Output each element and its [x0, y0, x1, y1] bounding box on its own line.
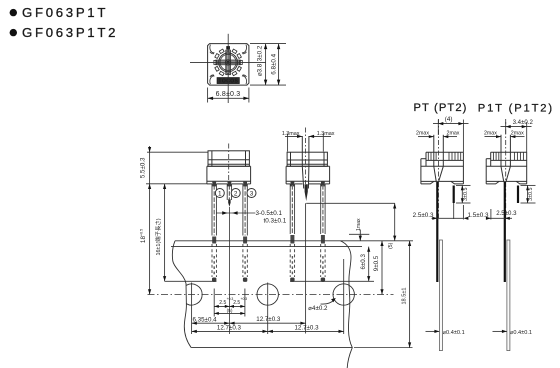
dimension 6.8±0.3 (top view width) — [208, 88, 249, 103]
reference line from lead tip — [306, 203, 395, 333]
svg-text:⌀0.4±0.1: ⌀0.4±0.1 — [510, 330, 532, 336]
dim (5) — [214, 308, 245, 315]
svg-text:2.5±0.3: 2.5±0.3 — [496, 210, 517, 217]
P1T center line — [505, 119, 507, 219]
svg-text:1.5±0.3: 1.5±0.3 — [468, 212, 489, 219]
P1T shaft — [501, 135, 510, 182]
svg-text:3.4±0.2: 3.4±0.2 — [513, 119, 534, 126]
svg-text:3: 3 — [250, 190, 254, 197]
svg-text:2.5: 2.5 — [219, 300, 226, 306]
leg root shadows — [212, 182, 324, 187]
svg-text:1: 1 — [218, 190, 222, 197]
PT dimension 1.5±0.3 — [454, 203, 489, 220]
dimension 12.7±0.3 row2 right — [268, 325, 344, 333]
PT front lead — [436, 182, 438, 282]
svg-text:6.8±0.3: 6.8±0.3 — [216, 91, 241, 98]
P1T back lead — [517, 186, 519, 204]
svg-text:1.3max: 1.3max — [317, 131, 335, 137]
dimension (5) vertical — [388, 203, 397, 249]
tape top edge — [175, 240, 371, 242]
svg-text:3±0.2: 3±0.2 — [257, 45, 264, 61]
svg-text:3±0.5: 3±0.5 — [463, 187, 469, 200]
rotor tick marks — [214, 46, 242, 76]
svg-text:GF063P1T: GF063P1T — [22, 5, 108, 20]
dimension 18.5±1 — [401, 241, 411, 348]
svg-text:1max: 1max — [356, 218, 362, 231]
top view body outline — [208, 44, 249, 86]
P1T dimension 3.4±0.2 — [501, 119, 534, 152]
hole center line — [148, 294, 394, 296]
component 2 leg left (long) — [290, 184, 294, 282]
svg-text:9±0.5: 9±0.5 — [373, 255, 380, 271]
dimension 3±0.2 / ⌀3.8 (top view inner height) — [250, 44, 286, 86]
hole center ticks — [192, 259, 344, 307]
PT dimension 2.5±0.3 — [413, 212, 464, 220]
bottom reference extension — [354, 347, 413, 349]
component 1 leg 3 (long) — [243, 184, 247, 282]
svg-text:2max: 2max — [484, 130, 497, 136]
svg-text:3±0.5: 3±0.5 — [528, 187, 534, 200]
dimension 16±1 (terminal length) — [154, 184, 216, 281]
sprocket hole left (torn) — [186, 284, 202, 305]
part number list — [10, 5, 119, 40]
svg-text:2: 2 — [234, 190, 238, 197]
svg-text:(5): (5) — [227, 308, 233, 314]
svg-text:⌀0.4±0.1: ⌀0.4±0.1 — [443, 330, 465, 336]
component 1 leg 2 (short center) — [227, 184, 231, 334]
P1T main body — [486, 152, 527, 184]
svg-text:12.7±0.3: 12.7±0.3 — [217, 325, 242, 332]
svg-text:18.5±1: 18.5±1 — [401, 287, 407, 304]
PT dimension (4) — [433, 116, 469, 152]
svg-text:6±0.3: 6±0.3 — [360, 254, 367, 270]
bottom dim extension lines — [192, 307, 344, 335]
svg-text:+0.3: +0.3 — [241, 297, 248, 301]
top view center lines — [190, 34, 266, 103]
svg-text:2max: 2max — [511, 130, 524, 136]
sprocket hole center — [257, 284, 278, 305]
tape adhesive edge — [171, 246, 362, 248]
leg pitch dims 2.5 / 2.5 — [214, 289, 247, 317]
PT dimension ⌀0.4±0.1 — [426, 330, 465, 336]
rotor circle — [219, 53, 238, 72]
P1T dimension ⌀0.4±0.1 — [493, 330, 533, 336]
dimension 1max — [349, 218, 369, 241]
P1T front lead — [504, 182, 506, 282]
svg-text:2.5: 2.5 — [233, 300, 240, 306]
svg-text:2max: 2max — [447, 130, 460, 136]
tape top reference extension — [371, 240, 414, 242]
dimension 1.3max left — [282, 131, 302, 152]
reference line at lead tips right — [290, 280, 374, 282]
dimension 18 (seating to hole center) — [140, 184, 152, 295]
component 2 leg right (long) — [321, 184, 325, 282]
dimension 5.5±0.3 (body height) — [139, 146, 208, 184]
rotor cross slot — [216, 50, 240, 74]
P1T dimension 2max right — [510, 130, 524, 138]
svg-text:PT (PT2): PT (PT2) — [414, 102, 468, 114]
PT dimension 2max left — [416, 130, 434, 138]
P1T dimension 2max left — [484, 130, 501, 138]
component 2 top section — [287, 152, 327, 166]
svg-text:2.5±0.3: 2.5±0.3 — [413, 212, 434, 219]
PT back lead — [453, 186, 455, 204]
pin number 1 — [215, 189, 224, 198]
svg-text:GF063P1T2: GF063P1T2 — [22, 25, 118, 40]
tape left torn edge — [172, 241, 191, 348]
svg-text:1.3max: 1.3max — [282, 131, 300, 137]
PT tape strip — [439, 240, 442, 351]
svg-text:16±1(端子長さ): 16±1(端子長さ) — [154, 218, 162, 255]
dimension 1.3max right — [309, 131, 335, 152]
dimension 6±0.3 — [360, 247, 370, 282]
top view corner notches — [210, 45, 247, 85]
leg width annotation 3-0.5±0.1 t0.3±0.1 — [216, 210, 286, 225]
svg-text:5.5±0.3: 5.5±0.3 — [139, 157, 146, 178]
svg-text:(5): (5) — [388, 242, 394, 248]
svg-text:6.35±0.4: 6.35±0.4 — [193, 316, 218, 323]
PT main body — [421, 152, 464, 184]
sprocket hole right — [333, 284, 354, 305]
PT dimension 3±0.5 — [456, 185, 471, 203]
component 1 center line — [228, 144, 230, 184]
dimension 6.8±0.4 (top view height) — [271, 44, 281, 86]
PT dimension 2max right — [443, 130, 460, 138]
component 1 leg 1 (long) — [212, 184, 216, 282]
component 2 shaft — [302, 136, 309, 189]
P1T dimension 2.5±0.3 — [486, 209, 517, 220]
dimension 6.35±0.4 — [192, 316, 230, 324]
svg-text:3-0.5±0.1: 3-0.5±0.1 — [256, 210, 283, 217]
P1T tape strip — [507, 240, 510, 351]
component 1 main body — [207, 166, 251, 184]
svg-text:2max: 2max — [416, 130, 429, 136]
svg-text:12.7±0.3: 12.7±0.3 — [294, 325, 319, 332]
component 2 center line — [305, 128, 307, 185]
P1T dimension 3±0.5 — [521, 185, 536, 203]
P1T top section with knurl — [486, 152, 527, 166]
component 2 main body — [286, 166, 330, 184]
component 1 top section (rotor housing) — [208, 151, 249, 167]
svg-text:12.7±0.3: 12.7±0.3 — [256, 316, 281, 323]
svg-text:(4): (4) — [445, 116, 453, 123]
svg-text:6.8±0.4: 6.8±0.4 — [271, 53, 278, 74]
hole diameter label ⌀4±0.2 — [308, 298, 336, 312]
dimension 12.7±0.3 row1 — [229, 316, 305, 325]
PT center line — [438, 119, 440, 218]
PT shaft — [434, 135, 444, 182]
TOCOS label — [217, 78, 239, 85]
pin number 3 — [247, 189, 256, 198]
tape right torn edge — [341, 241, 353, 368]
PT top section with knurl — [421, 152, 464, 166]
dimension 12.7±0.3 row2 left — [192, 325, 268, 333]
component 2 center lead (dark) — [305, 184, 308, 201]
dimension 9±0.5 — [373, 241, 384, 295]
svg-text:t0.3±0.1: t0.3±0.1 — [264, 218, 287, 225]
pin number 2 — [231, 189, 240, 198]
tape bottom edge — [191, 347, 352, 349]
svg-text:⌀3.8: ⌀3.8 — [257, 63, 264, 76]
svg-text:P1T (P1T2): P1T (P1T2) — [478, 102, 554, 114]
svg-text:⌀4±0.2: ⌀4±0.2 — [308, 305, 328, 312]
